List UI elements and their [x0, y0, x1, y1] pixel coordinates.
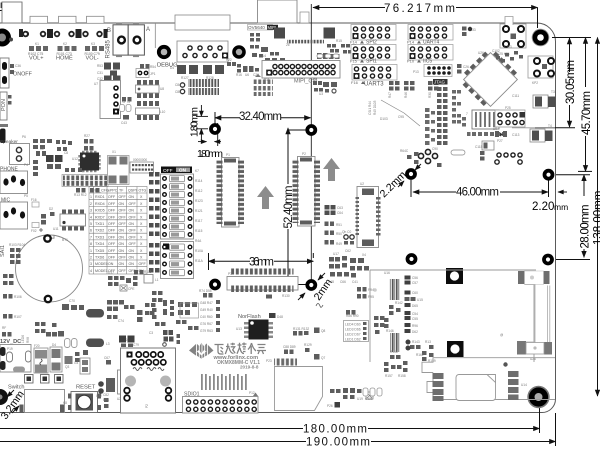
dot (20,43): [9, 38, 13, 42]
svg-text:LED3 D66: LED3 D66: [345, 328, 361, 332]
L10 SOIC8: [136, 101, 166, 120]
svg-text:R46: R46: [404, 92, 408, 98]
svg-text:U15: U15: [417, 298, 423, 302]
wifi module holes: [407, 170, 415, 178]
svg-text:36mm: 36mm: [249, 257, 274, 269]
svg-text:6: 6: [90, 229, 92, 233]
R133: [462, 27, 467, 37]
Speaker connector P6: [0, 135, 30, 165]
fiducial squares with white circles: [446, 268, 463, 284]
U11 SOIC8: [53, 210, 86, 232]
svg-text:D9: D9: [493, 127, 497, 131]
svg-text:C60: C60: [412, 291, 418, 295]
svg-text:OFF: OFF: [119, 195, 127, 199]
top-left corner connector stub: [2, 2, 22, 23]
svg-text:OFF: OFF: [108, 249, 116, 253]
svg-text:LED4 D60: LED4 D60: [345, 323, 361, 327]
dimension 28.00mm (vertical): [556, 175, 590, 260]
USB double-stack connector: [121, 348, 176, 413]
P23 pad row: [266, 359, 297, 366]
DIP switch block 2 (SW2 4pos): [161, 242, 194, 279]
svg-text:C74: C74: [118, 319, 124, 323]
svg-text:R74 D55: R74 D55: [199, 289, 212, 293]
svg-text:ON: ON: [129, 209, 135, 213]
svg-text:C54: C54: [412, 312, 418, 316]
svg-text:OFF: OFF: [108, 235, 116, 239]
svg-text:Switch: Switch: [8, 385, 24, 391]
barcode block 2: [390, 333, 400, 352]
svg-text:R4A: R4A: [195, 239, 202, 243]
JP1 jumper: [136, 69, 156, 78]
svg-text:C66: C66: [340, 280, 346, 284]
svg-text:R129: R129: [304, 343, 312, 347]
svg-text:R158: R158: [398, 374, 406, 378]
svg-text:P26: P26: [327, 404, 333, 408]
svg-text:EP4: EP4: [103, 398, 109, 402]
svg-text:R112: R112: [195, 189, 203, 193]
SPI1 header F15: [351, 45, 396, 61]
Q5 Q6 cluster right of MIPI: [313, 81, 337, 93]
R16 U6 C20 cluster: [237, 64, 259, 73]
svg-text:OFF: OFF: [108, 209, 116, 213]
D9 diode + P27: [495, 131, 507, 137]
svg-text:P10: P10: [407, 59, 415, 64]
MIPI_CSI connector P11: [262, 61, 340, 85]
gray dot: [503, 362, 507, 366]
pads below P3 left: [203, 293, 213, 298]
svg-text:R15: R15: [336, 39, 342, 43]
svg-text:L10: L10: [160, 110, 166, 114]
R51 R50 R49: [325, 222, 335, 227]
pads right of LED block: [374, 316, 385, 334]
U12 QFN chip: [72, 151, 101, 172]
U13 NorFlash chip: [236, 320, 273, 340]
svg-text:TXD3: TXD3: [95, 235, 104, 239]
left edge HDMI stub connector: [0, 129, 6, 144]
svg-text:C67: C67: [104, 356, 110, 360]
svg-text:P27: P27: [497, 139, 503, 143]
svg-text:OFF: OFF: [119, 209, 127, 213]
svg-text:X1: X1: [112, 150, 116, 154]
svg-text:R130: R130: [282, 294, 290, 298]
svg-text:mm: mm: [554, 202, 568, 212]
svg-text:30.05mm: 30.05mm: [565, 60, 577, 104]
pad row under U24: [472, 132, 506, 136]
svg-text:28.00mm: 28.00mm: [580, 205, 592, 249]
svg-text:R121: R121: [195, 209, 203, 213]
svg-text:JTAG: JTAG: [434, 80, 445, 85]
svg-text:ON: ON: [129, 222, 135, 226]
C48 C49 U39 pads top of DC area: [46, 331, 64, 337]
svg-text:RF: RF: [2, 326, 6, 330]
svg-text:T4: T4: [548, 124, 552, 128]
svg-text:180.00mm: 180.00mm: [303, 424, 367, 436]
svg-text:OFF: OFF: [119, 222, 127, 226]
R27 R34 pads: [84, 139, 94, 144]
svg-text:LED6: LED6: [21, 335, 25, 343]
JTAG label: [433, 79, 448, 85]
svg-text:C40 R60: C40 R60: [200, 315, 213, 319]
USB-device connector right edge (518-549,271-284): [518, 271, 550, 285]
power switch shaft bottom-left: [0, 389, 8, 405]
svg-text:C63: C63: [337, 206, 343, 210]
svg-text:A: A: [146, 27, 150, 33]
svg-text:U37: U37: [108, 271, 114, 275]
svg-text:TXD1: TXD1: [95, 222, 104, 226]
svg-text:C95: C95: [398, 115, 404, 119]
svg-text:C88 D89: C88 D89: [283, 345, 296, 349]
svg-text:F15: F15: [350, 59, 358, 64]
PHONE jack P4: [0, 163, 28, 194]
key KP2: [528, 56, 554, 85]
svg-text:DEBUG: DEBUG: [157, 63, 178, 69]
svg-text:C102: C102: [492, 49, 500, 53]
pads column C56/C57 etc: [405, 276, 424, 335]
svg-text:Qh C0: Qh C0: [342, 230, 351, 234]
svg-text:NorFlash: NorFlash: [238, 314, 261, 320]
long extension line through MIPI_CSI to core-board holes: [310, 4, 312, 281]
svg-text:X4: X4: [362, 253, 366, 257]
D4 diode bottom: [50, 343, 62, 372]
svg-text:P23: P23: [266, 359, 272, 363]
svg-text:1.80mm: 1.80mm: [190, 107, 201, 137]
svg-text:ON: ON: [129, 256, 135, 260]
svg-text:ON: ON: [119, 202, 125, 206]
M8 D2 pads: [41, 212, 55, 225]
svg-text:U16: U16: [384, 271, 390, 275]
U37 cluster below table: [108, 276, 138, 286]
dot left of KP1: [468, 27, 472, 31]
svg-text:D4: D4: [52, 343, 56, 347]
C43: [123, 115, 129, 120]
connector P2: [293, 152, 321, 226]
svg-text:OFF: OFF: [129, 215, 137, 219]
svg-text:OFF: OFF: [119, 269, 127, 273]
svg-text:VOL+: VOL+: [29, 56, 43, 62]
svg-text:TXD6: TXD6: [95, 256, 104, 260]
svg-text:F16: F16: [31, 198, 37, 202]
dimension 46.00mm: [411, 180, 549, 197]
svg-text:BT_CFG: BT_CFG: [95, 189, 109, 193]
camera module OV5640MIPI label: [248, 25, 279, 31]
svg-text:PON: PON: [1, 99, 7, 111]
svg-text:138.00mm: 138.00mm: [593, 191, 600, 245]
dark tabs + U26 connector bottom right: [517, 341, 552, 361]
label rows left of P3 (G48 R47 ...): [200, 301, 213, 333]
U30 cluster below battery: [107, 300, 155, 322]
svg-text:2: 2: [90, 256, 92, 260]
svg-text:P12: P12: [249, 391, 255, 395]
C70 pads below battery: [62, 304, 84, 310]
svg-text:ONOFF: ONOFF: [13, 72, 33, 78]
svg-text:C31: C31: [97, 71, 103, 75]
forlinx logo: [189, 343, 266, 370]
svg-text:UART3: UART3: [364, 82, 384, 88]
svg-text:R146: R146: [386, 329, 394, 333]
svg-text:ON: ON: [119, 242, 125, 246]
svg-text:R16: R16: [236, 73, 242, 77]
key KP1 top-right: [497, 24, 526, 56]
mounting hole bottom-right (538,397): [527, 386, 549, 408]
dimension 2.2mm (diagonal at hole 46mm): [398, 164, 421, 187]
svg-text:C103: C103: [504, 45, 512, 49]
svg-text:P5: P5: [24, 194, 28, 198]
svg-text:C36: C36: [15, 64, 21, 68]
svg-text:ON: ON: [108, 262, 114, 266]
svg-text:R11A: R11A: [195, 259, 204, 263]
svg-text:RXD5: RXD5: [95, 209, 105, 213]
svg-text:U4: U4: [262, 54, 266, 58]
svg-text:U7: U7: [94, 82, 98, 86]
CSI leader texts + diagonal line: [368, 100, 420, 126]
svg-text:MODE0: MODE0: [95, 262, 108, 266]
svg-text:R64C: R64C: [400, 149, 409, 153]
Q2/G4 cluster above reset: [75, 350, 88, 362]
dimension 45.70mm (vertical): [552, 38, 592, 172]
F16 F02 left pads: [31, 198, 39, 233]
svg-text:R45 D103: R45 D103: [373, 100, 377, 115]
svg-text:C115: C115: [475, 145, 483, 149]
dimension 56mm (vertical, on P1): [223, 163, 225, 224]
svg-text:F14: F14: [350, 40, 358, 45]
svg-text:R115: R115: [195, 229, 203, 233]
svg-text:ON: ON: [129, 195, 135, 199]
svg-text:K2: K2: [63, 42, 67, 46]
U26 rotated chip (diamond): [457, 46, 520, 109]
svg-text:RS485: RS485: [106, 39, 112, 58]
svg-text:K1: K1: [35, 42, 39, 46]
svg-text:SAI1: SAI1: [0, 245, 6, 257]
+ mark: [39, 228, 43, 232]
svg-text:R123: R123: [195, 199, 203, 203]
svg-text:26: 26: [286, 43, 290, 47]
svg-text:RXD7: RXD7: [95, 215, 105, 219]
svg-text:ePPC: ePPC: [108, 189, 118, 193]
svg-text:C113: C113: [512, 133, 520, 137]
thick arrow 1 (center): [257, 186, 274, 209]
D80 dark pair: [119, 336, 126, 343]
SPI2 header F14: [351, 25, 396, 41]
svg-text:R113: R113: [144, 270, 152, 274]
svg-text:F16: F16: [351, 80, 359, 85]
RS485 terminal block P7: [106, 23, 151, 59]
svg-text:R114: R114: [195, 179, 203, 183]
svg-text:R10A: R10A: [195, 249, 204, 253]
dimension 190.00mm: [0, 413, 556, 446]
svg-text:R51: R51: [336, 223, 342, 227]
svg-text:U12: U12: [72, 157, 78, 161]
svg-text:C8: C8: [64, 151, 68, 155]
C42 capsules right: [65, 339, 78, 348]
svg-text:R47: R47: [388, 92, 392, 98]
three square pads row y375: [25, 375, 64, 384]
dimension 2mm (diagonal at hole): [298, 273, 325, 300]
svg-text:RESET: RESET: [76, 385, 96, 391]
svg-text:4: 4: [90, 269, 92, 273]
button VOL+ (K1): [19, 16, 51, 61]
svg-text:C48: C48: [328, 280, 334, 284]
svg-text:C90: C90: [432, 147, 438, 151]
svg-text:1.80mm: 1.80mm: [197, 148, 223, 160]
MIC jack P5: [0, 194, 28, 229]
UART4 header P14: [408, 25, 453, 41]
svg-text:C84: C84: [175, 83, 181, 87]
button HOME (K2): [49, 16, 80, 61]
svg-text:G79 R63: G79 R63: [200, 329, 213, 333]
svg-text:P25: P25: [505, 106, 511, 110]
svg-text:OFF: OFF: [108, 195, 116, 199]
dimension 30.05mm (vertical): [535, 38, 575, 128]
svg-text:RXD1: RXD1: [95, 195, 105, 199]
svg-text:F20: F20: [34, 344, 40, 348]
svg-text:OFF: OFF: [108, 215, 116, 219]
svg-text:C72: C72: [96, 394, 102, 398]
svg-text:U11: U11: [53, 227, 59, 231]
svg-text:U6: U6: [245, 73, 249, 77]
svg-text:C43: C43: [121, 121, 127, 125]
left pads rows lower: [3, 274, 14, 285]
svg-text:OFF: OFF: [108, 202, 116, 206]
svg-text:P1: P1: [226, 153, 230, 157]
svg-text:C62: C62: [345, 249, 351, 253]
svg-text:P4: P4: [24, 163, 28, 167]
svg-text:7: 7: [466, 112, 468, 116]
mounting hole camera (239,52): [234, 47, 244, 57]
crystal bracket above KP1: [505, 17, 513, 26]
connector U2 (right display conn): [356, 182, 381, 248]
svg-text:7: 7: [90, 235, 92, 239]
svg-text:R54: R54: [150, 65, 156, 69]
thick arrow 2 (right of P2): [323, 158, 340, 181]
Qh C0 rings: [342, 230, 354, 245]
svg-text:BT1: BT1: [62, 238, 68, 242]
R13 R12 pads below row: [76, 188, 86, 193]
svg-text:JP1: JP1: [150, 72, 156, 76]
svg-text:T3: T3: [551, 90, 555, 94]
svg-text:U2: U2: [360, 182, 364, 186]
svg-text:L1: L1: [155, 278, 159, 282]
svg-text:R30: R30: [428, 92, 432, 98]
dimension 36mm: [209, 253, 314, 270]
svg-text:D4: D4: [170, 66, 174, 70]
P26 pad: [335, 402, 341, 408]
connector P1: [217, 153, 245, 227]
svg-text:F19: F19: [17, 394, 23, 398]
button VOL- (K3): [78, 16, 108, 61]
U4 SOT23s near camera: [265, 58, 285, 62]
svg-text:4: 4: [90, 215, 92, 219]
svg-text:QSPI: QSPI: [128, 189, 137, 193]
boot config table: [89, 187, 147, 275]
RESET button K8: [63, 385, 101, 413]
svg-text:OV5640: OV5640: [248, 25, 265, 30]
passives around diamond top: [496, 51, 523, 63]
left pads column (R103..): [10, 248, 21, 264]
svg-text:P3: P3: [228, 272, 232, 276]
svg-text:P22: P22: [226, 58, 232, 62]
dimension 76.217mm: [313, 8, 538, 29]
vertical net labels above P12: [201, 374, 247, 390]
P13 connector: [413, 65, 452, 77]
U24 striped chip: [466, 110, 499, 129]
svg-text:C26: C26: [463, 65, 469, 69]
P22 connector left of camera: [227, 62, 236, 66]
svg-text:OFF: OFF: [108, 256, 116, 260]
svg-text:C79: C79: [133, 343, 139, 347]
PON connector left edge: [0, 92, 12, 120]
svg-text:K7: K7: [195, 169, 199, 173]
svg-text:HOME: HOME: [56, 56, 73, 62]
svg-text:L3: L3: [106, 342, 110, 346]
C119 C120 capsules: [120, 105, 132, 112]
dimension 2.20mm: [558, 191, 567, 193]
SD card module: [422, 358, 555, 401]
audio ring cluster below JTAG: [400, 147, 442, 167]
resistor pairs column between table and DIP: [149, 172, 160, 273]
svg-text:U26: U26: [478, 51, 484, 55]
svg-text:8: 8: [90, 242, 92, 246]
white caps row bottom middle: [363, 388, 382, 396]
R53 C31 C32 cluster: [97, 63, 121, 82]
svg-text:C111: C111: [512, 94, 519, 98]
svg-text:C55: C55: [412, 317, 418, 321]
audio codec cluster (C1..C9): [33, 139, 72, 176]
battery BT1: [16, 235, 83, 302]
svg-text:46.00mm: 46.00mm: [456, 187, 499, 199]
svg-text:R13 R12: R13 R12: [74, 193, 87, 197]
dimension 3.2mm (diagonal, bottom-left): [7, 390, 19, 413]
cluster right of TF (R142 etc): [384, 305, 434, 372]
dimension 180.00mm: [0, 407, 540, 433]
R113 L1: [134, 270, 144, 275]
svg-text:OFF: OFF: [119, 215, 127, 219]
svg-text:R127: R127: [181, 76, 189, 80]
ONOFF connector left edge: [0, 58, 33, 88]
svg-text:R86 R90: R86 R90: [346, 314, 359, 318]
svg-text:OFF: OFF: [129, 242, 137, 246]
svg-text:P6: P6: [22, 135, 26, 139]
TF card slot outline: [275, 367, 323, 411]
svg-text:R107: R107: [14, 315, 22, 319]
IIC5 header P10: [408, 45, 453, 61]
svg-text:ON: ON: [119, 262, 125, 266]
svg-text:C57: C57: [412, 281, 418, 285]
svg-text:2.20: 2.20: [532, 201, 554, 213]
svg-text:R98: R98: [26, 337, 30, 343]
extra passives x100-200 y300-330: [107, 302, 199, 330]
svg-text:MODE1: MODE1: [95, 269, 108, 273]
mounting hole top-right (540.5,37.5): [532, 29, 550, 47]
small 2x10 header (P15): [130, 158, 154, 173]
svg-text:R13: R13: [425, 340, 431, 344]
svg-text:3: 3: [90, 209, 92, 213]
passives row right of camera x340-360: [341, 44, 356, 54]
svg-text:U19: U19: [357, 397, 363, 401]
WiFi module U36 outline: [370, 270, 536, 362]
DIP switch block 1 (SW1 8pos): [161, 167, 194, 240]
svg-text:IIC5: IIC5: [423, 59, 432, 65]
DC jack P19: [0, 345, 31, 373]
barcode block 1: [390, 279, 400, 300]
C67 pad: [106, 360, 111, 365]
svg-text:ON: ON: [119, 229, 125, 233]
DEBUG pins: [183, 46, 228, 59]
svg-text:OFF: OFF: [163, 168, 173, 174]
svg-text:D2: D2: [49, 207, 53, 211]
C115 small box: [475, 141, 494, 150]
svg-text:ON: ON: [129, 262, 135, 266]
pads pair right of GOSO: [480, 151, 485, 161]
